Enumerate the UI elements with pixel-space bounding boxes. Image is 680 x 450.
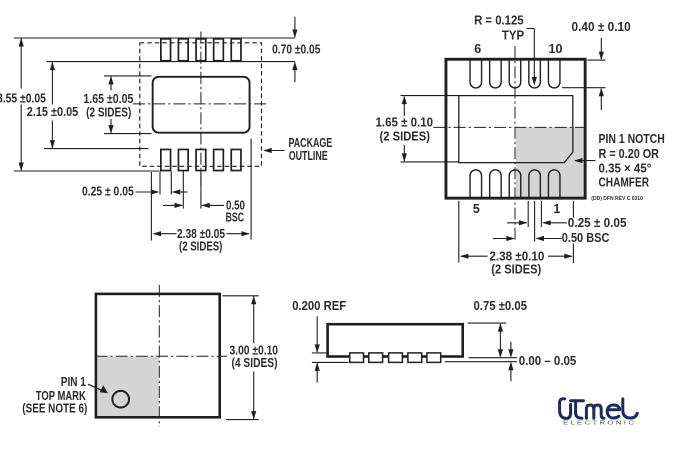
dim 0.75 arrows (499, 324, 501, 357)
ext line exposed pad top (104, 75, 152, 77)
side pad 5 (427, 353, 441, 363)
svg-text:1: 1 (553, 202, 560, 216)
Utmel logo wordmark (560, 399, 638, 419)
svg-text:OUTLINE: OUTLINE (289, 149, 328, 163)
svg-text:R = 0.20 OR: R = 0.20 OR (599, 147, 660, 161)
svg-text:(2 SIDES): (2 SIDES) (491, 263, 541, 277)
svg-text:5: 5 (473, 202, 480, 216)
ext lines 2.38 TR (458, 201, 460, 263)
svg-text:6: 6 (474, 42, 481, 56)
ext lines 0.40 (588, 59, 606, 61)
dim 0.00 arrows (510, 342, 512, 357)
pin1 shaded quadrant (516, 127, 585, 197)
svg-text:0.25 ± 0.05: 0.25 ± 0.05 (82, 185, 134, 199)
svg-text:0.200 REF: 0.200 REF (292, 299, 346, 313)
svg-text:10: 10 (549, 42, 563, 56)
pin 2 pad (529, 170, 541, 198)
pin1 mark arrow (88, 384, 106, 392)
pad bottom row 1 (161, 149, 171, 170)
ext lines 0.50 TL (182, 171, 184, 208)
leadframe pads TR (470, 60, 560, 198)
svg-text:CHAMFER: CHAMFER (599, 176, 650, 190)
ext line pads top-row bottom (47, 61, 296, 63)
horizontal centerline TR (434, 126, 586, 128)
svg-text:(4 SIDES): (4 SIDES) (232, 356, 278, 370)
dim 1.65 line (110, 76, 112, 91)
solder pad layout pads (161, 39, 241, 171)
exposed pad land (153, 77, 250, 133)
dim 0.40 arrows (600, 38, 602, 59)
ext line 0.75 (468, 322, 507, 324)
ext lines 0.25 TL (159, 171, 161, 194)
standoff lines left (312, 352, 327, 354)
svg-text:0.70 ±0.05: 0.70 ±0.05 (272, 43, 320, 57)
dim 0.25 TR arrows (507, 222, 526, 224)
pin1 gray quadrant top view (97, 357, 159, 417)
package body top view (96, 294, 220, 417)
svg-text:PIN 1: PIN 1 (61, 375, 86, 389)
ext lines 2.38 TL (150, 172, 152, 241)
pin 5 pad (470, 170, 482, 198)
dim 3.55 line (20, 38, 22, 89)
vertical centerline TL (200, 32, 202, 186)
pad bottom row 5 (231, 149, 241, 170)
vertical centerline TR (514, 46, 516, 242)
ext line pads bottom (14, 170, 159, 172)
dim 0.50 arrows TL (163, 204, 182, 206)
ext lines 0.25 TR (527, 201, 529, 227)
side pad 3 (389, 353, 403, 363)
package body side view (328, 324, 463, 356)
svg-text:0.40 ± 0.10: 0.40 ± 0.10 (572, 20, 631, 34)
pad bottom row 4 (214, 149, 224, 170)
svg-text:(2 SIDES): (2 SIDES) (380, 129, 431, 143)
side pad 2 (369, 353, 383, 363)
svg-text:0.50 BSC: 0.50 BSC (562, 231, 610, 245)
ext line pad4 center TR (534, 201, 536, 242)
dim 0.70 arrows (294, 17, 296, 37)
svg-text:2.38 ±0.10: 2.38 ±0.10 (489, 250, 544, 264)
side view pads (350, 353, 441, 363)
pin 6 pad (470, 60, 482, 88)
dim 2.15 line (51, 62, 53, 105)
dim 2.15 arrows (50, 62, 55, 71)
svg-text:E L E C T R O N I C: E L E C T R O N I C (563, 421, 635, 427)
svg-text:2.15 ±0.05: 2.15 ±0.05 (27, 105, 78, 119)
svg-text:0.35 × 45°: 0.35 × 45° (599, 161, 652, 175)
R=0.125 leader (527, 28, 535, 30)
pin 4 pad (490, 170, 502, 198)
pad top row 1 (161, 39, 171, 61)
dim 1.65 TR arrows (402, 96, 407, 105)
svg-text:(2 SIDES): (2 SIDES) (86, 105, 131, 119)
ext line pads top (14, 37, 295, 39)
pin 3 pad (509, 170, 521, 198)
dim 2.38 TR arrows (460, 254, 469, 259)
svg-text:(2 SIDES): (2 SIDES) (179, 239, 222, 253)
vertical centerline BL (158, 285, 160, 427)
dim 3.00 arrows (251, 296, 256, 305)
svg-text:PIN 1 NOTCH: PIN 1 NOTCH (599, 132, 665, 146)
pin 1 pad (548, 170, 560, 198)
dim 3.00 line (253, 296, 255, 343)
ext lines 3.00 (222, 295, 258, 297)
svg-text:0.75 ±0.05: 0.75 ±0.05 (474, 299, 528, 313)
pad top row 4 (214, 39, 224, 61)
svg-text:(DD) DFN REV C 0310: (DD) DFN REV C 0310 (591, 196, 643, 202)
dim 2.38 arrows TL (153, 231, 162, 236)
pad top row 2 (178, 39, 188, 61)
pin 8 pad (509, 60, 521, 88)
pin 10 pad (548, 60, 560, 88)
dim 3.55 arrows (19, 38, 24, 47)
ext line exposed pad bottom (104, 133, 152, 135)
ext line pads bottom-row top (44, 148, 149, 150)
pin1 notch arrow (574, 158, 583, 163)
dim 0.25 arrows TL (136, 191, 159, 193)
svg-text:TYP: TYP (502, 29, 524, 43)
package body outline TR (446, 59, 585, 198)
package outline arrow (263, 148, 272, 153)
pad top row 5 (231, 39, 241, 61)
pad top row 3 (196, 39, 206, 61)
svg-text:R = 0.125: R = 0.125 (474, 14, 524, 28)
horizontal centerline BL (96, 355, 228, 357)
pin 9 pad (529, 60, 541, 88)
dim 1.65 arrows (108, 76, 113, 85)
pin1 top mark circle (112, 391, 129, 408)
dim 0.50 TR arrows (493, 238, 514, 240)
svg-text:BSC: BSC (226, 210, 244, 224)
svg-text:(SEE NOTE 6): (SEE NOTE 6) (22, 401, 87, 415)
svg-text:3.55 ±0.05: 3.55 ±0.05 (0, 92, 46, 106)
pad bottom row 3 (196, 149, 206, 170)
svg-text:1.65 ± 0.10: 1.65 ± 0.10 (376, 115, 434, 129)
dashed package outline rect (140, 43, 262, 167)
svg-text:0.25 ± 0.05: 0.25 ± 0.05 (568, 216, 627, 230)
pin 7 pad (490, 60, 502, 88)
svg-text:1.65 ±0.05: 1.65 ±0.05 (83, 92, 133, 106)
side pad 4 (408, 353, 422, 363)
horizontal centerline TL (133, 103, 268, 105)
svg-text:3.00 ±0.10: 3.00 ±0.10 (230, 343, 279, 357)
coplanarity lines (469, 357, 517, 359)
pad bottom row 2 (178, 149, 188, 170)
side pad 1 (350, 353, 364, 363)
svg-text:0.00 – 0.05: 0.00 – 0.05 (519, 354, 577, 368)
dim 0.200 arrows (316, 316, 318, 352)
exposed pad with pin1 chamfer (459, 96, 573, 163)
ext lines 1.65 TR (401, 95, 459, 97)
